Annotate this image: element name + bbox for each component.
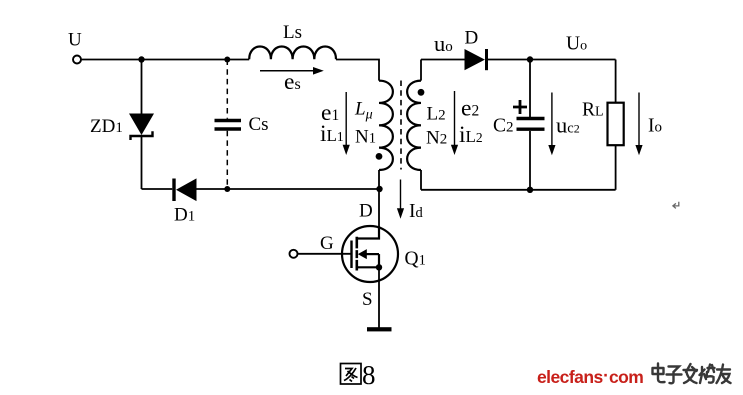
svg-text:N1: N1 [355,127,376,148]
node junction ZD1 top [138,56,144,62]
svg-text:elecfans·com: elecfans·com [537,365,643,387]
wire bottom left ZD1 to D1 [142,188,173,190]
svg-text:uo: uo [434,31,453,56]
logo chinese shao [700,365,715,384]
svg-text:D1: D1 [174,205,195,226]
svg-text:ZD1: ZD1 [90,116,123,137]
svg-text:es: es [284,69,301,95]
svg-text:8: 8 [362,360,376,390]
zener diode ZD1 [129,60,154,190]
logo chinese fa [684,364,698,383]
svg-text:N2: N2 [426,128,447,149]
resistor RL [608,60,624,190]
arrow es [260,67,324,75]
secondary polarity dot [418,89,425,96]
svg-text:Id: Id [409,201,424,222]
plus sign of C2 [513,100,527,114]
wire gate [298,253,352,255]
node junction C2 top [527,56,533,62]
gate terminal [290,250,298,258]
mosfet channel bar [355,237,358,271]
wire source to ground [378,267,380,329]
logo chinese you [717,365,731,384]
input terminal U [73,56,81,64]
wire bottom right secondary return [421,189,616,191]
mosfet gate bar [350,241,352,269]
svg-text:D: D [465,28,479,49]
wire top from terminal to Ls [81,59,249,61]
return mark [673,202,679,209]
svg-text:G: G [320,233,334,254]
wire drain node to mosfet [378,189,380,239]
mosfet body arrow [358,249,379,267]
mosfet drain connection [357,226,379,238]
arrow Io [635,93,642,156]
svg-text:Ls: Ls [283,22,302,43]
inductor Ls [249,47,336,60]
svg-text:D: D [359,201,373,222]
arrow e1 iL1 [343,92,350,155]
logo chinese zi [667,367,682,384]
svg-text:S: S [362,289,373,310]
svg-text:e2: e2 [461,96,479,122]
svg-text:Cs: Cs [249,114,269,135]
ground [367,327,392,331]
svg-text:Q1: Q1 [405,249,426,270]
svg-text:uc2: uc2 [556,113,580,138]
svg-text:Lμ: Lμ [354,99,373,123]
caption tu 8 character [341,364,362,385]
capacitor Cs [215,60,242,190]
transformer primary winding N1 [379,81,393,189]
diode D1 [174,178,197,201]
node junction C2 bottom [527,187,533,193]
transformer secondary winding N2 [407,60,421,190]
svg-text:L2: L2 [427,104,446,125]
diode D [465,49,487,70]
node junction Cs bottom [224,186,230,192]
arrow uc2 [548,93,555,156]
mosfet Q1 body circle [342,226,398,282]
arrow e2 iL2 [451,91,458,155]
mosfet source connection [357,266,379,268]
svg-text:Uo: Uo [566,34,587,55]
svg-text:iL2: iL2 [459,122,483,148]
wire bottom left D1 to drain node [197,188,380,190]
primary polarity dot [376,153,383,160]
node junction drain [376,186,382,192]
wire diode D to RL corner [488,59,616,61]
svg-text:U: U [68,30,82,51]
node junction Cs top [224,57,230,63]
svg-text:Io: Io [648,116,662,137]
capacitor C2 [517,60,545,190]
transformer core dashed line [400,81,402,170]
wire Ls to transformer primary top [336,60,379,81]
logo chinese dian [653,364,665,383]
wire secondary top to diode D [421,59,465,61]
node source body junction [376,264,382,270]
svg-text:C2: C2 [493,116,514,137]
svg-text:iL1: iL1 [320,121,344,147]
svg-text:RL: RL [582,100,604,121]
arrow Id [397,180,404,219]
